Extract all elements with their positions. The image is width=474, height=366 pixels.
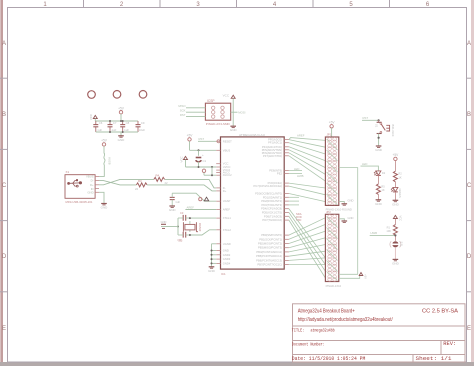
- svg-text:Sheet: 1/1: Sheet: 1/1: [416, 356, 452, 362]
- wire SCK: [186, 111, 205, 113]
- mounting hole H1: [88, 91, 96, 99]
- frame column numbers: [43, 2, 430, 8]
- svg-text:GND: GND: [223, 249, 229, 253]
- svg-text:22: 22: [135, 187, 139, 191]
- svg-text:GND4: GND4: [223, 261, 231, 265]
- wire PE2 stub: [289, 173, 302, 175]
- supply ring UCAP: [199, 198, 202, 201]
- resistor R3 22 (lower): [135, 179, 147, 191]
- supply +5V P4 (VBUS net): [187, 134, 194, 151]
- wire to gnd symbol: [170, 226, 178, 228]
- header JP2 bottom: [325, 210, 341, 288]
- svg-text:PD5(XCK1/CTS): PD5(XCK1/CTS): [262, 211, 282, 215]
- frame bottom gray band: [0, 362, 474, 366]
- ground GND JP2: [342, 216, 354, 222]
- svg-text:MOSI: MOSI: [238, 110, 245, 114]
- svg-text:AREF: AREF: [297, 134, 305, 138]
- wire MISO: [186, 107, 205, 109]
- svg-text:A: A: [2, 41, 6, 47]
- svg-text:GND: GND: [375, 202, 383, 206]
- svg-text:LED: LED: [362, 162, 367, 166]
- svg-text:GND: GND: [348, 216, 354, 220]
- wire fan PD down: [289, 209, 326, 278]
- svg-text:+5V: +5V: [329, 120, 336, 124]
- svg-text:HWB: HWB: [297, 174, 304, 178]
- svg-text:10K: 10K: [386, 229, 391, 233]
- wire LED net: [361, 166, 379, 171]
- svg-text:PB0(SS/PCINT0): PB0(SS/PCINT0): [261, 233, 282, 237]
- switch S1 RST: [362, 116, 395, 146]
- svg-text:PINHD-2X3-SMD: PINHD-2X3-SMD: [206, 122, 230, 126]
- svg-text:PE2: PE2: [277, 172, 283, 176]
- wire AVCC rail: [204, 174, 216, 176]
- svg-text:PB3(MISO/PCINT3): PB3(MISO/PCINT3): [258, 246, 282, 250]
- svg-text:+5V: +5V: [393, 153, 400, 157]
- svg-text:E: E: [2, 326, 6, 332]
- usb trident icon: [67, 179, 79, 187]
- svg-text:B: B: [467, 112, 471, 118]
- wire after R4: [165, 179, 217, 188]
- wire PE6 stub: [289, 170, 302, 172]
- svg-text:HWB: HWB: [371, 231, 378, 235]
- svg-text:D: D: [2, 254, 7, 260]
- wire D+ crossing: [99, 179, 154, 184]
- wire AVCC link: [211, 167, 213, 175]
- net labels icsp left: [178, 104, 186, 117]
- svg-text:E: E: [467, 326, 471, 332]
- svg-text:http://ladyada.net/products/at: http://ladyada.net/products/atmega32u4br…: [298, 317, 393, 323]
- svg-text:JP2: JP2: [326, 210, 331, 214]
- capacitor C2 xtal top: [178, 211, 190, 221]
- svg-text:PB5(PCINT5/ADC12): PB5(PCINT5/ADC12): [256, 254, 282, 258]
- svg-text:D: D: [467, 254, 472, 260]
- resistor R1 10K: [386, 225, 397, 241]
- wire XTAL1: [190, 217, 216, 219]
- svg-text:GND: GND: [87, 191, 93, 195]
- svg-text:CC 2.5 BY-SA: CC 2.5 BY-SA: [422, 309, 459, 315]
- svg-text:GND: GND: [348, 199, 354, 203]
- wire D- crossing: [99, 181, 136, 185]
- mounting hole H2: [113, 91, 121, 99]
- junction UVCC: [198, 166, 214, 168]
- svg-text:PB6(PCINT6/ADC13): PB6(PCINT6/ADC13): [256, 258, 282, 262]
- junction VBUS: [198, 149, 200, 151]
- svg-text:PD0(OC0B/SCL/INT0): PD0(OC0B/SCL/INT0): [255, 192, 282, 196]
- crystal Q1: [178, 221, 202, 242]
- svg-text:C7: C7: [113, 121, 117, 125]
- svg-text:GND: GND: [208, 269, 216, 273]
- svg-text:ICSP: ICSP: [207, 99, 214, 103]
- svg-text:B3F-31XX: B3F-31XX: [391, 125, 395, 137]
- svg-text:+: +: [202, 153, 204, 157]
- svg-text:+5V: +5V: [187, 134, 194, 138]
- svg-text:IC1: IC1: [221, 272, 226, 276]
- frame right pink band: [471, 0, 474, 366]
- svg-text:PB1(SCK/PCINT1): PB1(SCK/PCINT1): [259, 237, 282, 241]
- supply +5V ring P6: [202, 169, 205, 175]
- svg-text:RST: RST: [199, 137, 205, 141]
- wire PD stubs: [289, 197, 299, 205]
- wire JP2 gnd: [339, 219, 345, 221]
- svg-text:AREF: AREF: [223, 208, 231, 212]
- svg-text:VBUS: VBUS: [223, 148, 231, 152]
- svg-text:VCC: VCC: [223, 94, 230, 98]
- svg-text:S1: S1: [374, 124, 378, 128]
- svg-text:Q1: Q1: [178, 238, 182, 242]
- wire cap top bus: [95, 120, 138, 122]
- svg-text:UCAP: UCAP: [223, 199, 231, 203]
- ground GND C4: [169, 206, 177, 212]
- wire RST icsp: [186, 116, 205, 118]
- svg-text:SCK: SCK: [180, 109, 186, 113]
- svg-text:1K: 1K: [381, 188, 384, 192]
- svg-text:GND3: GND3: [223, 257, 231, 261]
- LED D1 GREEN: [391, 187, 402, 200]
- svg-text:R2: R2: [398, 172, 402, 176]
- svg-text:C1: C1: [203, 159, 207, 163]
- svg-text:PF7(ADC7/TDI): PF7(ADC7/TDI): [263, 154, 282, 158]
- wire JP1 gnd: [339, 202, 345, 204]
- ground GND JP1: [342, 199, 354, 206]
- svg-text:PD3(TXD1/INT3): PD3(TXD1/INT3): [262, 203, 283, 207]
- wire VUSB wavy: [99, 146, 105, 176]
- svg-text:C9: C9: [141, 121, 145, 125]
- wire UVCC rail: [186, 166, 217, 168]
- svg-text:C: C: [2, 183, 7, 189]
- svg-text:.1uF: .1uF: [111, 128, 117, 132]
- wire long vertical net: [339, 168, 358, 275]
- svg-text:XTAL1: XTAL1: [223, 216, 232, 220]
- svg-text:TXD: TXD: [296, 218, 301, 222]
- svg-text:REV:: REV:: [443, 341, 456, 347]
- svg-text:PINHD-1X10: PINHD-1X10: [326, 284, 342, 288]
- solder jumper SJ1: [390, 241, 404, 259]
- svg-text:Atmega32u4 Breakout Board+: Atmega32u4 Breakout Board+: [298, 309, 355, 315]
- resistor R5 1K: [376, 184, 385, 200]
- wire XTAL2: [190, 230, 216, 235]
- svg-text:10uF: 10uF: [139, 128, 146, 132]
- supply VCC arrow P5: [179, 156, 187, 167]
- capacitor CP1 polarized: [196, 150, 207, 167]
- frame row letters left: [2, 41, 7, 332]
- wire JP2 to vcc arrow: [339, 274, 360, 278]
- wire VBUS to IC: [190, 149, 217, 151]
- wire HWB: [370, 234, 396, 236]
- svg-text:X1: X1: [66, 170, 70, 174]
- svg-text:16MHZ: 16MHZ: [198, 223, 202, 232]
- svg-text:VCC: VCC: [89, 113, 93, 120]
- svg-text:1uF: 1uF: [175, 200, 180, 204]
- wire fan IC to top header: [289, 138, 326, 202]
- frame side ticks: [0, 78, 471, 292]
- X1 pin stubs: [95, 176, 99, 192]
- junction HWB: [394, 234, 396, 236]
- ground GND icsp: [230, 126, 238, 132]
- svg-text:+5V: +5V: [364, 274, 368, 279]
- junction dots GND chain: [211, 250, 213, 265]
- ground GND IC: [208, 267, 216, 273]
- frame top ticks: [84, 0, 390, 8]
- svg-text:AREF: AREF: [187, 206, 195, 210]
- net labels PD: [296, 212, 302, 222]
- svg-text:C3: C3: [180, 211, 184, 215]
- svg-text:VUSB: VUSB: [108, 157, 112, 165]
- supply +5V JP1: [329, 120, 336, 137]
- svg-text:R4: R4: [156, 173, 160, 177]
- supply VCC arrow icsp: [223, 94, 236, 127]
- wire fan PB up: [289, 218, 326, 265]
- supply VCC arrow P2: [89, 113, 98, 121]
- svg-text:Date: 11/5/2010 1:05:24 PM: Date: 11/5/2010 1:05:24 PM: [292, 356, 366, 362]
- svg-text:Document Number:: Document Number:: [292, 341, 325, 347]
- header JP1 top: [325, 133, 352, 212]
- svg-text:RST: RST: [180, 113, 186, 117]
- wire MOSI: [231, 111, 238, 113]
- capacitor C4 1uF (UCAP): [170, 193, 217, 206]
- svg-text:atmega32u4bb: atmega32u4bb: [311, 328, 335, 334]
- svg-text:22: 22: [165, 181, 169, 185]
- RESET bubble: [217, 140, 220, 143]
- svg-text:PD4(ICP1/ADC8): PD4(ICP1/ADC8): [261, 207, 282, 211]
- svg-text:.1uF: .1uF: [97, 128, 103, 132]
- svg-text:GND: GND: [118, 138, 126, 142]
- supply VCC arrow HWB: [393, 215, 402, 224]
- capacitor C8: [120, 121, 125, 132]
- ground GND xtal: [161, 220, 170, 228]
- svg-text:RST: RST: [363, 116, 369, 120]
- wire X1 GND: [99, 192, 104, 203]
- wire RESET to IC: [198, 140, 216, 142]
- svg-text:A: A: [467, 41, 471, 47]
- ground GND SJ1: [392, 259, 400, 265]
- capacitor C5 xtal bottom: [178, 232, 190, 243]
- svg-text:SJ1: SJ1: [400, 242, 404, 247]
- IC1 left pin stubs: [216, 141, 220, 263]
- svg-text:GREEN: GREEN: [398, 189, 402, 198]
- svg-text:PD2(RXD1/INT2): PD2(RXD1/INT2): [261, 199, 282, 203]
- svg-text:GND: GND: [392, 202, 400, 206]
- supply +5V P1: [118, 106, 125, 121]
- svg-text:C: C: [467, 183, 472, 189]
- junction AVCC: [211, 174, 213, 176]
- svg-text:+5V: +5V: [118, 106, 125, 110]
- svg-text:+5V: +5V: [101, 139, 108, 143]
- junction dots xtal: [177, 217, 191, 236]
- svg-text:ATMEGA32U4-AU: ATMEGA32U4-AU: [239, 133, 265, 137]
- svg-text:1K: 1K: [398, 175, 401, 179]
- capacitor C6: [93, 121, 98, 132]
- IC1 right pin stubs: [284, 140, 289, 265]
- IC1 left pin names: [223, 139, 232, 265]
- svg-text:MINI-USB-32005-201: MINI-USB-32005-201: [66, 200, 94, 204]
- header ICSP: [205, 99, 230, 126]
- capacitor C7: [108, 121, 113, 132]
- frame row letters right: [467, 41, 472, 332]
- svg-text:C6: C6: [99, 121, 103, 125]
- svg-text:PD6(T1/ADC9): PD6(T1/ADC9): [264, 214, 282, 218]
- svg-text:PD7(T0/ADC10): PD7(T0/ADC10): [262, 218, 282, 222]
- svg-text:PC7(ICP3/CLK0/OC4A): PC7(ICP3/CLK0/OC4A): [253, 184, 282, 188]
- svg-text:PB7(PCINT7/OC1C): PB7(PCINT7/OC1C): [257, 263, 282, 267]
- svg-text:C8: C8: [126, 121, 130, 125]
- svg-text:R5: R5: [381, 184, 385, 188]
- resistor R4 22 (upper): [154, 173, 168, 185]
- svg-text:TITLE:: TITLE:: [292, 328, 305, 334]
- svg-text:R1: R1: [387, 225, 391, 229]
- LED D2: [374, 171, 386, 184]
- svg-text:.1uF: .1uF: [123, 128, 129, 132]
- svg-text:UGND: UGND: [223, 242, 231, 246]
- svg-text:GND: GND: [161, 220, 167, 224]
- svg-text:PB2(MOSI/PCINT2): PB2(MOSI/PCINT2): [258, 242, 282, 246]
- svg-text:PB4(PCINT4/ADC11): PB4(PCINT4/ADC11): [256, 250, 282, 254]
- wire xtal gnd link: [177, 218, 179, 235]
- wire AREF: [185, 209, 216, 211]
- junction dots cap bank: [109, 120, 124, 133]
- svg-text:MISO: MISO: [178, 104, 186, 108]
- resistor R2 1K: [393, 171, 402, 187]
- wire GND chain IC left: [212, 244, 217, 267]
- svg-text:D+: D+: [223, 189, 227, 193]
- svg-text:PD1(SDA/INT1): PD1(SDA/INT1): [263, 195, 282, 199]
- supply VCC arrow JP2: [359, 273, 367, 280]
- svg-text:GND: GND: [230, 128, 238, 132]
- svg-text:R3: R3: [138, 179, 142, 183]
- IC1 right pin names: [253, 138, 282, 267]
- wire cap bottom bus: [96, 131, 138, 133]
- mounting hole H3: [139, 91, 147, 99]
- svg-text:B: B: [2, 112, 6, 118]
- svg-text:XTAL2: XTAL2: [223, 228, 232, 232]
- X1 pin names: [86, 175, 94, 195]
- svg-text:VCC: VCC: [399, 216, 403, 222]
- wire after R3: [147, 185, 216, 191]
- svg-text:GND: GND: [101, 206, 109, 210]
- svg-text:JP1: JP1: [327, 133, 332, 137]
- svg-text:VCC: VCC: [179, 156, 183, 163]
- ground GND X1: [101, 204, 109, 210]
- supply +5V LED col2: [393, 153, 400, 171]
- ground GND D2: [375, 200, 383, 206]
- ground GND S1: [375, 146, 383, 152]
- svg-text:PF1(ADC1): PF1(ADC1): [268, 141, 282, 145]
- supply VCC arrow UCAP: [204, 197, 208, 201]
- title block frame: [293, 304, 466, 362]
- svg-text:LED: LED: [294, 167, 299, 171]
- svg-text:RESET: RESET: [223, 139, 232, 143]
- svg-text:GND: GND: [392, 261, 400, 265]
- connector X1 (mini USB): [65, 170, 99, 204]
- svg-text:D2: D2: [382, 171, 386, 175]
- frame left pink band: [0, 0, 1, 366]
- ground GND cap bank: [118, 132, 126, 142]
- svg-text:GND: GND: [375, 148, 383, 152]
- svg-text:GND: GND: [169, 208, 177, 212]
- supply +5V P3 (VUSB): [101, 139, 108, 146]
- op IC1 ATMEGA32U4 body: [221, 133, 285, 276]
- capacitor C9: [136, 121, 141, 132]
- svg-text:GND2: GND2: [223, 253, 231, 257]
- svg-text:AVCC2: AVCC2: [223, 173, 232, 177]
- ground GND D1: [392, 200, 400, 206]
